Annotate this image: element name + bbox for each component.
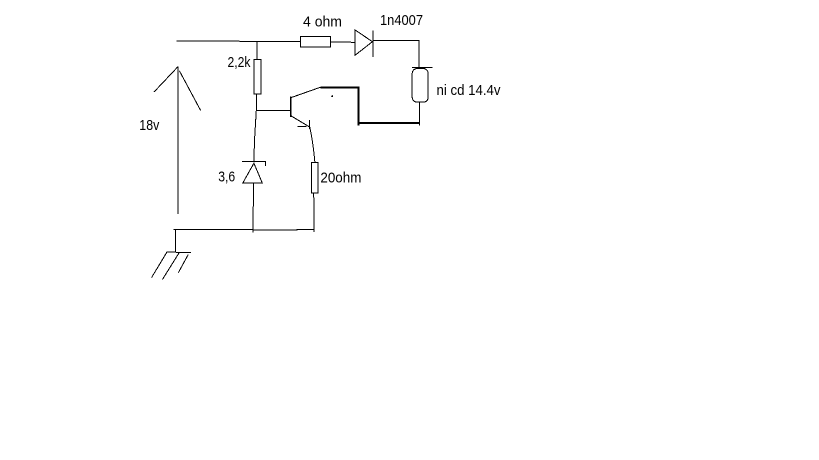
resistor R1 2,2k [254,60,261,95]
svg-text:18v: 18v [139,117,159,134]
wire zener to bottom rail [252,183,254,232]
battery BT1 ni cd [412,68,433,103]
node dot [331,95,333,97]
wire bottom rail [174,229,315,232]
svg-text:1n4007: 1n4007 [380,12,423,29]
diode D1 [355,30,373,57]
wire collector corner down [357,87,359,126]
wire collector horizontal [320,86,358,88]
wire to battery minus [357,122,419,124]
wire top supply rail [177,40,301,43]
wire diode to battery top corner [373,40,419,67]
svg-text:4 ohm: 4 ohm [303,14,342,31]
zener diode D2 3,6 [242,162,266,183]
ground [152,230,191,280]
svg-text:20ohm: 20ohm [320,169,361,186]
source 18v arrow [154,67,201,214]
wire 20ohm to bottom rail [313,193,316,232]
wire base node down to zener [254,110,256,161]
svg-text:ni cd 14.4v: ni cd 14.4v [437,82,501,99]
wire stub from rail to R1 [256,41,258,60]
wire resistor to diode [330,41,355,43]
wire base node to transistor base [256,109,290,111]
resistor 20ohm [312,162,318,193]
resistor 4 ohm [300,37,330,47]
transistor Q1 [291,87,321,129]
wire battery bottom lead [418,102,420,126]
svg-text:2,2k: 2,2k [228,54,251,71]
svg-text:3,6: 3,6 [218,168,235,185]
wire R1 bottom to base node [256,94,258,110]
wire emitter to 20ohm resistor [310,127,315,162]
